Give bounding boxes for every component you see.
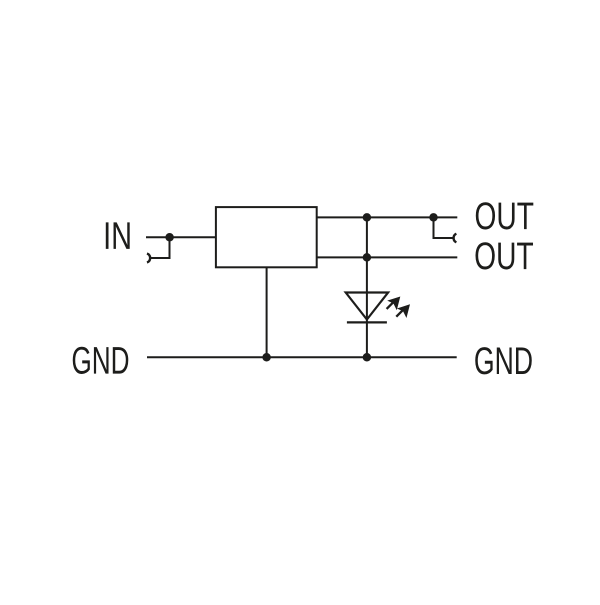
label GND right [475,347,532,374]
LED triangle (anode) [346,293,388,320]
label IN [106,222,130,248]
socket contact IN [147,254,150,263]
wire IN to module [146,236,216,238]
wire junction to IN socket [151,237,170,258]
wire module to OUT (top) [317,216,458,218]
module box [216,207,317,267]
junction module-GND [262,353,271,362]
junction LED branch at GND rail [363,353,372,362]
LED light arrow 2 [392,300,415,323]
wire module to OUT (bottom) [317,256,458,258]
label GND left [73,347,129,374]
label OUT top [476,202,534,229]
LED light arrow 1 [383,292,406,315]
GND rail wire [147,356,457,358]
label OUT bottom [476,242,534,269]
wire module to GND rail [266,267,268,357]
wire LED branch vertical [366,217,368,357]
junction bottom OUT at LED branch [363,253,372,262]
junction top OUT at LED branch [363,213,372,222]
socket contact OUT [454,234,457,243]
junction on IN wire [165,233,174,242]
junction top OUT at socket branch [429,213,438,222]
LED cathode bar [347,321,387,323]
wire junction to OUT socket [434,217,453,238]
